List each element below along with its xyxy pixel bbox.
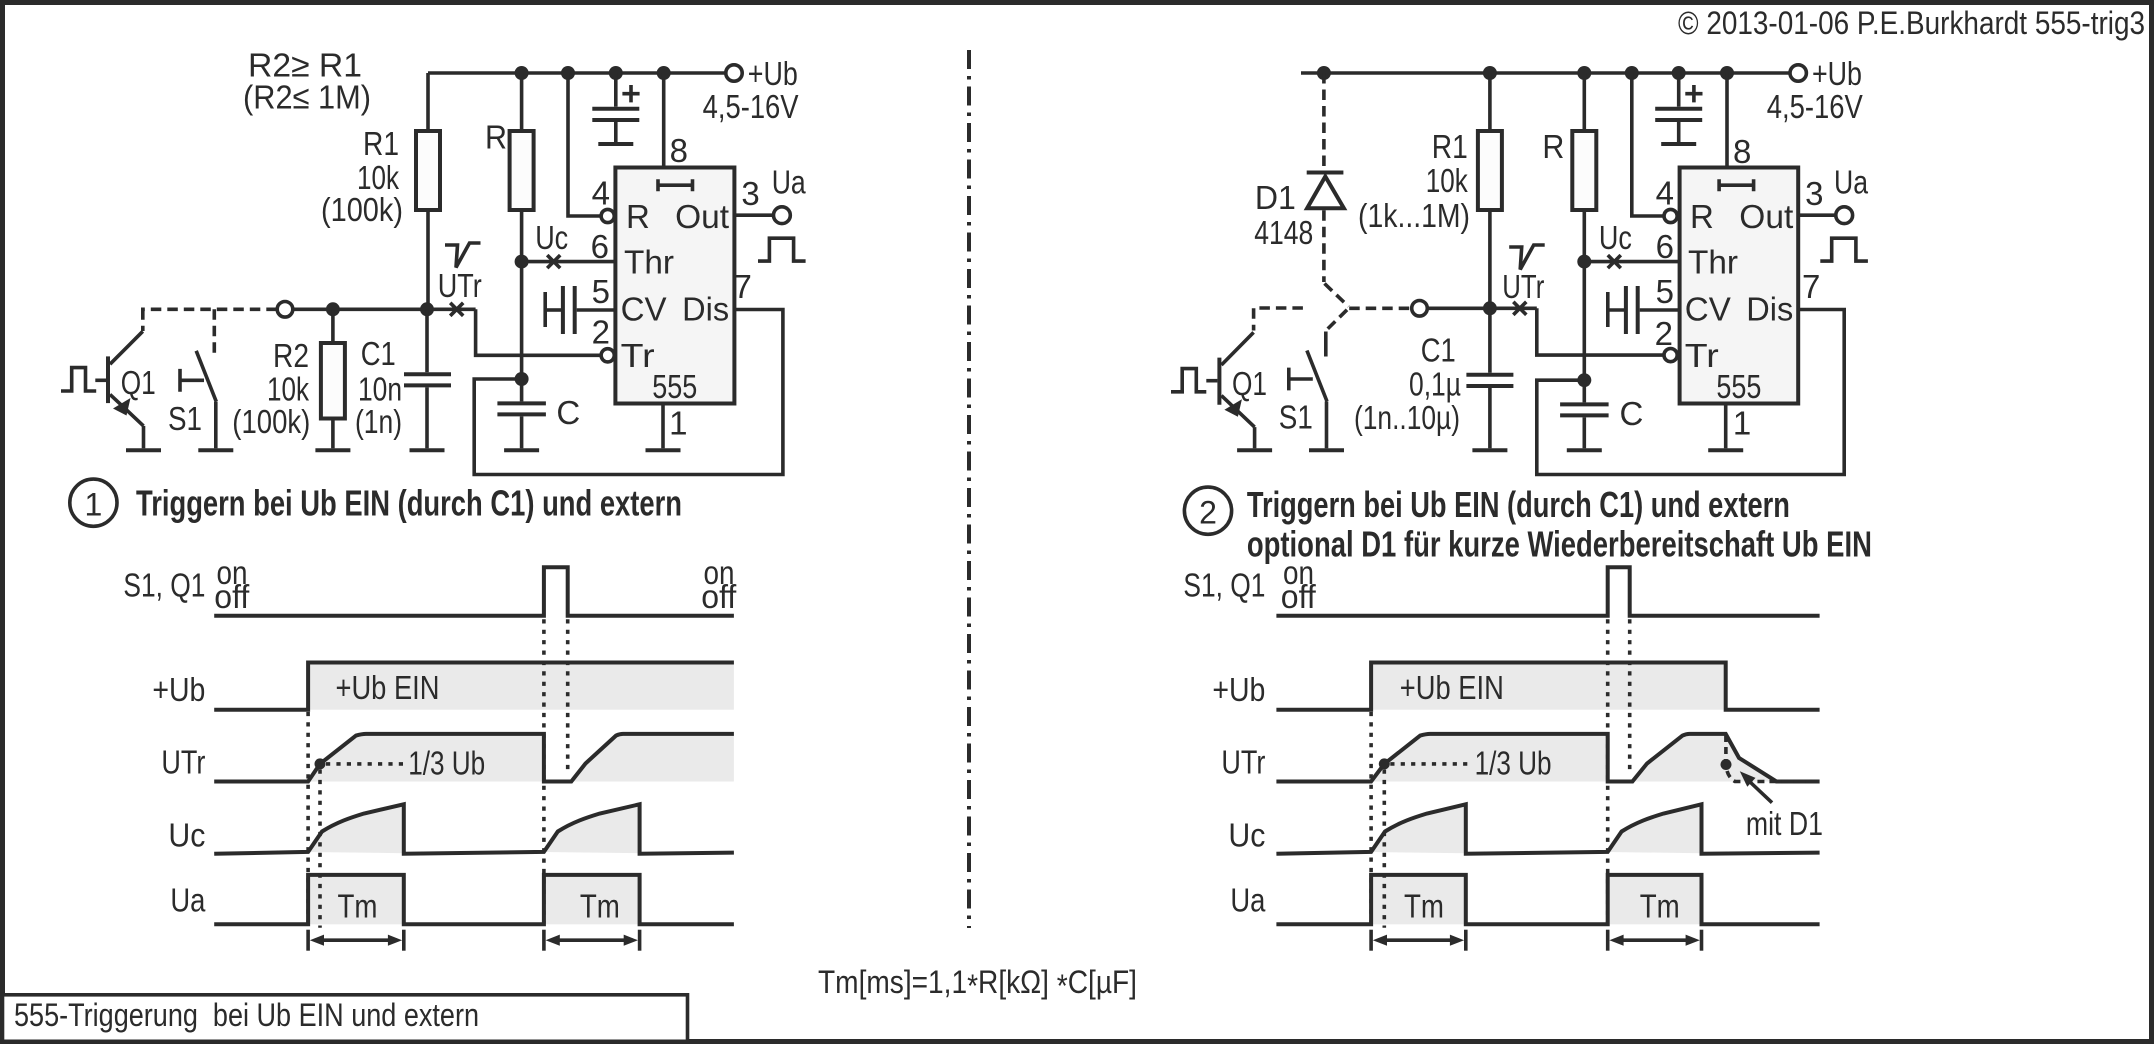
svg-text:3: 3 xyxy=(741,175,759,212)
svg-text:C: C xyxy=(1620,395,1644,432)
svg-text:(1n..10µ): (1n..10µ) xyxy=(1354,399,1460,436)
transistor Q1 emitter xyxy=(110,394,144,426)
svg-text:Triggern bei Ub EIN (durch C1): Triggern bei Ub EIN (durch C1) und exter… xyxy=(1247,484,1790,525)
terminal Ua (right) xyxy=(1836,207,1853,224)
fill Ua pulse 1 (left) xyxy=(308,875,404,924)
waveform +Ub (right) xyxy=(1276,663,1819,710)
svg-text:Uc: Uc xyxy=(168,817,205,854)
polarity + of elco xyxy=(622,85,639,102)
pin circle 4 xyxy=(601,209,614,222)
dashed wire to S1 xyxy=(213,309,217,355)
dotted vertical Ub-on (right) xyxy=(1369,712,1373,926)
svg-text:C1: C1 xyxy=(361,335,396,372)
ground (S1) xyxy=(198,448,233,452)
svg-text:R1: R1 xyxy=(1432,128,1468,165)
probe symbol UTr (right) xyxy=(1509,245,1545,270)
transistor Q1 base bar (left) xyxy=(106,356,110,403)
svg-text:555: 555 xyxy=(652,368,697,405)
wire R1 to node UTr xyxy=(426,210,430,309)
wire base stub Q1 (right) xyxy=(1206,379,1217,383)
dotted vertical trigger rise (right) xyxy=(1606,619,1610,923)
CV capacitor plate 2 (right) xyxy=(1636,286,1640,334)
svg-text:3: 3 xyxy=(1805,175,1823,212)
svg-text:5: 5 xyxy=(592,273,610,310)
CV capacitor plate 1 (right) xyxy=(1624,286,1628,334)
svg-text:Thr: Thr xyxy=(624,244,674,281)
node dot rail elco branch (right) xyxy=(1672,66,1686,80)
node dot Thr (right) xyxy=(1577,255,1591,269)
divider dash-dot line xyxy=(967,50,971,928)
wire R1 to input node (right) xyxy=(1488,210,1492,308)
wire base stub Q1 xyxy=(95,378,106,382)
svg-text:Ua: Ua xyxy=(1230,882,1266,919)
dashed wire to Q1 collector xyxy=(141,309,145,331)
crossing mark UTr xyxy=(450,303,463,316)
wire elco to ground xyxy=(614,122,618,142)
node dot rail pin4 branch (right) xyxy=(1625,66,1639,80)
svg-text:1/3 Ub: 1/3 Ub xyxy=(408,745,485,782)
wire rail to R1 (right) xyxy=(1488,73,1492,131)
svg-text:(1n): (1n) xyxy=(355,403,402,440)
fill Uc ramp 1 (right) xyxy=(1371,804,1466,853)
fill Uc ramp 2 (right) xyxy=(1608,804,1702,853)
svg-text:10k: 10k xyxy=(267,371,309,408)
pin circle 4 (right) xyxy=(1664,209,1677,222)
node dot rail D1 branch xyxy=(1317,66,1331,80)
dotted level 1/3 Ub (right) xyxy=(1390,762,1470,766)
ground (C1) xyxy=(410,448,445,452)
dashed wire rail to D1 xyxy=(1322,73,1326,171)
transistor Q1 emitter arrow (right) xyxy=(1224,399,1242,417)
fill +Ub EIN (right) xyxy=(1371,663,1726,710)
svg-text:© 2013-01-06 P.E.Burkhardt 555: © 2013-01-06 P.E.Burkhardt 555-trig3 xyxy=(1678,5,2145,41)
fill Uc ramp 2 (left) xyxy=(544,804,640,853)
transistor Q1 base bar (right) xyxy=(1217,358,1221,405)
svg-text:Tm[ms]=1,1*R[kΩ] *C[µF]: Tm[ms]=1,1*R[kΩ] *C[µF] xyxy=(818,964,1137,1004)
wire Out pin 3 xyxy=(734,213,773,217)
caption circle 2 xyxy=(1184,487,1231,534)
transistor Q1 collector xyxy=(110,331,143,364)
svg-text:4,5-16V: 4,5-16V xyxy=(1767,88,1863,125)
svg-text:UTr: UTr xyxy=(438,267,482,304)
terminal +Ub (right) xyxy=(1790,65,1806,81)
terminal +Ub (left) xyxy=(726,65,742,81)
node dot rail R branch xyxy=(515,66,529,80)
waveform Ua (left) xyxy=(214,875,734,924)
svg-text:R: R xyxy=(626,198,650,235)
wire tick to CV cap xyxy=(545,308,561,312)
wire rail to elco xyxy=(614,73,618,107)
pin circle 2 (right) xyxy=(1664,349,1677,362)
output pulse glyph (right) xyxy=(1820,238,1868,261)
svg-text:optional D1 für kurze Wiederbe: optional D1 für kurze Wiederbereitschaft… xyxy=(1247,524,1872,565)
ground (right C1) xyxy=(1472,448,1507,452)
svg-text:10k: 10k xyxy=(1426,162,1468,199)
op IC 555 (left) xyxy=(615,168,734,404)
node dot mit D1 xyxy=(1721,759,1732,770)
wire C1 to ground (right) xyxy=(1488,388,1492,448)
svg-text:Tr: Tr xyxy=(1685,337,1719,374)
capacitor C plate 2 (right) xyxy=(1560,413,1609,417)
capacitor C1 plate 2 (right) xyxy=(1466,384,1513,388)
CV capacitor terminal tick (right) xyxy=(1606,292,1610,327)
svg-text:Dis: Dis xyxy=(682,291,729,328)
dotted vertical trigger rise (left) xyxy=(542,619,546,923)
waveform UTr (left) xyxy=(214,734,734,782)
node dot rail elco branch xyxy=(609,66,623,80)
wire rail to pin 4 R xyxy=(568,73,601,216)
dashed wire to Q1 collector (right) xyxy=(1254,308,1303,331)
capacitor C plate 1 xyxy=(497,401,546,405)
wire tick to CV cap (right) xyxy=(1608,308,1624,312)
dotted vertical 1/3Ub (right) xyxy=(1383,770,1387,928)
svg-text:555: 555 xyxy=(1716,368,1761,405)
wire S1 to ground xyxy=(214,402,218,449)
transistor Q1 collector (right) xyxy=(1221,332,1253,365)
wire R to Thr and C (right) xyxy=(1583,210,1587,380)
node dot rail R1 branch (right) xyxy=(1483,66,1497,80)
capacitor C1 plate 1 (right) xyxy=(1466,373,1513,377)
svg-text:R1: R1 xyxy=(363,125,399,162)
svg-text:2: 2 xyxy=(1199,495,1217,531)
svg-text:Dis: Dis xyxy=(1746,291,1793,328)
wire S1 to ground (right) xyxy=(1325,401,1329,448)
wire Q1 emitter to ground xyxy=(142,426,146,448)
electrolytic capacitor plate 1 xyxy=(592,107,639,111)
svg-text:S1: S1 xyxy=(168,400,202,437)
svg-text:4,5-16V: 4,5-16V xyxy=(703,88,799,125)
dashed wire D1 diagonal to Y xyxy=(1325,284,1349,307)
svg-text:2: 2 xyxy=(592,314,610,351)
svg-text:S1, Q1: S1, Q1 xyxy=(1183,567,1265,604)
ground (right C) xyxy=(1567,448,1602,452)
svg-text:off: off xyxy=(701,578,737,615)
svg-text:(1k...1M): (1k...1M) xyxy=(1358,197,1470,234)
wire C top xyxy=(520,379,524,401)
crossing mark Uc xyxy=(547,255,560,268)
dotted vertical trigger fall (right) xyxy=(1628,619,1632,773)
dotted vertical 1/3Ub (left) xyxy=(318,770,322,928)
svg-text:8: 8 xyxy=(1733,133,1751,170)
wire Tr bend to pin 2 xyxy=(476,309,601,355)
diode D1 cathode bar xyxy=(1307,171,1344,175)
fill UTr (left) xyxy=(308,734,734,782)
resistor R1 xyxy=(416,131,440,210)
svg-text:Q1: Q1 xyxy=(1232,365,1267,402)
svg-text:off: off xyxy=(214,578,250,615)
svg-text:Triggern bei Ub EIN (durch C1): Triggern bei Ub EIN (durch C1) und exter… xyxy=(136,483,682,524)
svg-text:4: 4 xyxy=(1656,175,1674,212)
svg-text:(R2≤ 1M): (R2≤ 1M) xyxy=(243,79,371,116)
wire elco to ground (right) xyxy=(1677,122,1681,142)
switch S1 contact (right) xyxy=(1289,368,1313,391)
waveform Uc (left) xyxy=(214,804,734,854)
svg-text:+Ub: +Ub xyxy=(1812,55,1862,92)
caption circle 1 xyxy=(70,479,117,526)
svg-text:C1: C1 xyxy=(1421,332,1456,369)
diode D1 triangle xyxy=(1307,177,1344,209)
CV capacitor terminal tick xyxy=(543,292,547,327)
fill Uc ramp 1 (left) xyxy=(308,804,404,853)
switch S1 blade (right) xyxy=(1307,351,1327,402)
wire Thr from R branch (right) xyxy=(1584,260,1679,264)
svg-text:6: 6 xyxy=(591,228,609,265)
svg-text:10n: 10n xyxy=(358,371,402,408)
wire CV cap to pin 5 (right) xyxy=(1640,308,1680,312)
svg-text:1: 1 xyxy=(85,487,103,523)
svg-text:Q1: Q1 xyxy=(121,364,156,401)
node dot rail pin4 branch xyxy=(561,66,575,80)
wire C1 branch xyxy=(425,309,429,372)
crossing mark UTr (right) xyxy=(1513,302,1526,315)
electrolytic capacitor plate 2 (right) xyxy=(1655,118,1702,122)
wire Out pin 3 (right) xyxy=(1798,213,1835,217)
ground (right pin 1) xyxy=(1708,448,1743,452)
svg-text:Tm: Tm xyxy=(1404,888,1444,925)
svg-text:Tr: Tr xyxy=(621,337,655,374)
node dot Thr xyxy=(515,255,529,269)
reset-mark inside IC xyxy=(658,179,693,191)
node dot rail pin8 branch (right) xyxy=(1720,66,1734,80)
probe symbol UTr (left) xyxy=(445,243,481,268)
svg-text:0,1µ: 0,1µ xyxy=(1409,366,1461,403)
transistor Q1 emitter arrow xyxy=(113,398,131,416)
waveform UTr (right) xyxy=(1276,734,1819,782)
capacitor C1 plate 1 xyxy=(404,372,451,376)
dashed wire Y to input circle xyxy=(1349,306,1411,310)
terminal Ua (left) xyxy=(774,207,791,224)
output pulse glyph (left) xyxy=(758,238,806,261)
wire S1 actuator stub (right) xyxy=(1324,332,1328,357)
svg-text:Ua: Ua xyxy=(772,163,807,200)
svg-text:Out: Out xyxy=(1739,198,1793,235)
polarity + of elco (right) xyxy=(1685,85,1702,102)
wire C1 to ground xyxy=(425,387,429,448)
svg-text:7: 7 xyxy=(734,268,752,305)
svg-text:Tm: Tm xyxy=(338,888,378,925)
dimension Tm 2 (left) xyxy=(544,930,640,951)
wire Tr bend to pin 2 (right) xyxy=(1537,308,1664,355)
svg-text:UTr: UTr xyxy=(161,744,205,781)
svg-text:Out: Out xyxy=(675,198,729,235)
node dot rail R branch (right) xyxy=(1577,66,1591,80)
svg-text:+Ub: +Ub xyxy=(748,55,798,92)
svg-text:6: 6 xyxy=(1656,228,1674,265)
input node terminal (left) xyxy=(277,302,293,318)
svg-text:S1, Q1: S1, Q1 xyxy=(123,567,205,604)
svg-text:Ua: Ua xyxy=(1834,163,1869,200)
wire pin 1 to ground xyxy=(661,403,665,448)
input node terminal (right) xyxy=(1412,301,1428,317)
wire Dis loop xyxy=(474,310,783,475)
dashed wire input to Q1 S1 xyxy=(141,307,277,311)
svg-text:Ua: Ua xyxy=(170,882,206,919)
input pulse glyph Q1 (right) xyxy=(1171,369,1206,392)
svg-text:(100k): (100k) xyxy=(232,403,310,440)
CV capacitor plate 1 xyxy=(561,286,565,334)
CV capacitor plate 2 xyxy=(573,286,577,334)
resistor R1 (right) xyxy=(1478,131,1502,210)
arrowhead mit D1 xyxy=(1740,771,1756,786)
ground (right S1) xyxy=(1309,448,1344,452)
dotted level 1/3 Ub (left) xyxy=(326,762,404,766)
wire C1 branch (right) xyxy=(1488,308,1492,372)
dashed UTr decay with D1 xyxy=(1726,735,1814,782)
dimension Tm 1 (right) xyxy=(1371,930,1466,951)
node dot R2 branch xyxy=(326,302,340,316)
waveform S1 Q1 (left) xyxy=(214,567,734,616)
svg-text:555-Triggerung bei Ub EIN und: 555-Triggerung bei Ub EIN und extern xyxy=(14,997,479,1033)
fill Ua pulse 2 (right) xyxy=(1608,875,1702,924)
node dot C top (right) xyxy=(1577,373,1591,387)
wire rail to R1 xyxy=(426,73,430,131)
wire C to ground (right) xyxy=(1583,417,1587,448)
ground (C) xyxy=(504,448,539,452)
svg-text:CV: CV xyxy=(1685,291,1731,328)
svg-text:8: 8 xyxy=(670,132,688,169)
ground (R2) xyxy=(315,448,350,452)
svg-text:4: 4 xyxy=(592,175,610,212)
waveform Ua (right) xyxy=(1276,875,1819,924)
wire C to ground xyxy=(520,416,524,448)
svg-text:R: R xyxy=(1690,198,1714,235)
op IC 555 (right) xyxy=(1680,168,1799,404)
svg-text:Tm: Tm xyxy=(580,888,620,925)
capacitor C plate 2 xyxy=(497,412,546,416)
fill UTr (right) xyxy=(1371,734,1776,782)
electrolytic capacitor plate 1 (right) xyxy=(1655,107,1702,111)
svg-text:off: off xyxy=(1281,578,1317,615)
svg-text:R: R xyxy=(485,119,507,156)
switch S1 contact (left) xyxy=(180,369,204,392)
wire pin 1 to ground (right) xyxy=(1724,403,1728,448)
svg-text:+Ub: +Ub xyxy=(152,671,205,708)
dotted vertical trigger fall (left) xyxy=(566,619,570,773)
ground (pin 1) xyxy=(646,448,681,452)
svg-text:+Ub EIN: +Ub EIN xyxy=(1400,669,1504,706)
wire input node to UTr node xyxy=(293,307,476,311)
dashed wire Y to S1 (right) xyxy=(1328,310,1348,329)
svg-text:7: 7 xyxy=(1802,268,1820,305)
svg-text:(100k): (100k) xyxy=(321,191,403,228)
ground (right elco) xyxy=(1661,142,1696,146)
wire rail to R (right) xyxy=(1583,73,1587,131)
wire rail to elco (right) xyxy=(1677,73,1681,107)
fill Ua pulse 2 (left) xyxy=(544,875,640,924)
svg-text:1/3 Ub: 1/3 Ub xyxy=(1475,745,1552,782)
ground (Q1) xyxy=(126,448,161,452)
svg-text:Tm: Tm xyxy=(1640,888,1680,925)
dimension Tm 2 (right) xyxy=(1608,930,1702,951)
svg-text:UTr: UTr xyxy=(1221,744,1265,781)
svg-text:mit D1: mit D1 xyxy=(1746,805,1823,842)
ground (right Q1) xyxy=(1237,448,1272,452)
node dot 1/3 Ub (right) xyxy=(1379,758,1390,769)
waveform Uc (right) xyxy=(1276,804,1819,854)
wire Q1 emitter to ground (right) xyxy=(1253,427,1257,448)
svg-text:UTr: UTr xyxy=(1502,268,1544,305)
svg-text:Uc: Uc xyxy=(535,219,568,256)
svg-text:1: 1 xyxy=(669,404,687,441)
svg-text:5: 5 xyxy=(1656,273,1674,310)
capacitor C plate 1 (right) xyxy=(1560,402,1609,406)
node dot UTr xyxy=(420,302,434,316)
node dot C1 R1 (right) xyxy=(1483,301,1497,315)
node dot C top xyxy=(515,372,529,386)
resistor R2 xyxy=(321,343,345,419)
fill +Ub EIN (left) xyxy=(308,663,734,710)
fill Ua pulse 1 (right) xyxy=(1371,875,1466,924)
svg-text:R2: R2 xyxy=(273,337,309,374)
title box xyxy=(3,995,688,1042)
+Ub supply rail (left) xyxy=(428,71,727,75)
capacitor C1 plate 2 xyxy=(404,383,451,387)
electrolytic capacitor plate 2 xyxy=(592,118,639,122)
wire CV cap to pin 5 xyxy=(577,308,616,312)
wire R2 branch xyxy=(331,309,335,343)
ground (elco) xyxy=(598,142,633,146)
input pulse glyph Q1 (left) xyxy=(61,368,96,391)
switch S1 blade (left) xyxy=(196,351,216,402)
wire Thr from R branch xyxy=(522,260,616,264)
svg-text:4148: 4148 xyxy=(1254,214,1313,251)
crossing mark Uc (right) xyxy=(1608,255,1621,268)
waveform S1 Q1 (right) xyxy=(1276,567,1819,616)
svg-text:C: C xyxy=(556,394,580,431)
svg-text:1: 1 xyxy=(1733,404,1751,441)
pin circle 2 xyxy=(601,349,614,362)
wire R to Thr node and C xyxy=(520,210,524,379)
+Ub supply rail (right) xyxy=(1301,71,1791,75)
transistor Q1 emitter (right) xyxy=(1221,396,1254,428)
dashed wire D1 to input node xyxy=(1322,210,1326,282)
svg-text:Thr: Thr xyxy=(1688,244,1738,281)
wire input node to bend (right) xyxy=(1428,306,1537,310)
svg-text:Uc: Uc xyxy=(1599,219,1632,256)
wire C top (right) xyxy=(1583,380,1587,402)
wire rail to pin 4 R (right) xyxy=(1632,73,1664,216)
svg-text:R: R xyxy=(1542,128,1564,165)
wire rail to pin 8 (right) xyxy=(1725,73,1729,168)
svg-text:S1: S1 xyxy=(1279,399,1313,436)
node dot rail pin8 branch xyxy=(657,66,671,80)
resistor R (right) xyxy=(1572,131,1596,210)
waveform +Ub (left) xyxy=(214,663,734,710)
svg-text:D1: D1 xyxy=(1255,179,1296,216)
svg-text:+Ub: +Ub xyxy=(1212,671,1265,708)
wire rail to R xyxy=(520,73,524,131)
arrow mit D1 xyxy=(1749,781,1772,803)
svg-text:Uc: Uc xyxy=(1228,817,1265,854)
node dot 1/3 Ub (left) xyxy=(315,758,326,769)
svg-text:CV: CV xyxy=(621,291,667,328)
svg-text:2: 2 xyxy=(1655,315,1673,352)
svg-text:+Ub EIN: +Ub EIN xyxy=(336,669,440,706)
wire Dis loop (right) xyxy=(1537,310,1844,475)
dimension Tm 1 (left) xyxy=(308,930,404,951)
dotted vertical Ub-on (left) xyxy=(306,712,310,926)
reset-mark inside IC (right) xyxy=(1719,179,1754,191)
wire rail to pin 8 xyxy=(662,73,666,168)
wire R2 to ground xyxy=(331,419,335,449)
resistor R (left) xyxy=(510,131,534,210)
